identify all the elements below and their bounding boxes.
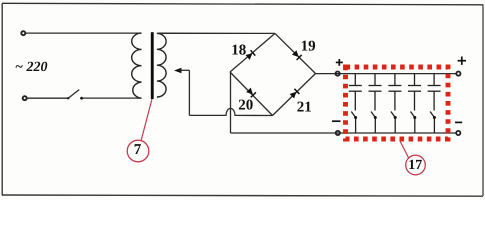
- callout circle 7: [127, 140, 149, 162]
- diode 21: [289, 89, 299, 99]
- svg-text:19: 19: [301, 39, 316, 55]
- wire: plus rail from bridge right vertex: [316, 73, 457, 75]
- wire: tap to bridge bottom vertex, with hop over minus wire: [189, 108, 272, 115]
- wire: tap down: [188, 70, 190, 115]
- label minus right: [455, 121, 462, 123]
- terminal: AC input bottom: [23, 96, 27, 100]
- svg-text:18: 18: [231, 43, 246, 59]
- leader line for callout 7: [141, 99, 152, 141]
- terminal: plus right: [456, 72, 460, 76]
- bridge edge upper-left: [230, 33, 275, 72]
- bridge edge lower-right: [273, 74, 316, 116]
- switch: [67, 97, 69, 99]
- svg-text:20: 20: [238, 98, 253, 114]
- tap arrow on secondary: [174, 68, 182, 74]
- label plus right: [458, 57, 466, 65]
- bridge edge lower-left: [230, 72, 273, 116]
- callout circle 17: [406, 155, 426, 175]
- capacitor C5 with switch: [428, 74, 441, 133]
- wire: secondary top to bridge top vertex: [157, 32, 275, 34]
- wire: minus rail to right: [231, 132, 457, 134]
- svg-text:7: 7: [134, 142, 142, 158]
- capacitor C4 with switch: [408, 74, 421, 133]
- svg-text:~ 220: ~ 220: [15, 60, 47, 75]
- transformer secondary winding: [157, 33, 166, 97]
- label plus left: [336, 59, 343, 66]
- diode 19: [292, 50, 302, 60]
- leader line for callout 17: [400, 141, 409, 158]
- wire: bottom AC to switch: [27, 97, 68, 99]
- capacitor C3 with switch: [388, 74, 401, 133]
- wire: switch to transformer primary: [82, 97, 142, 99]
- terminal: minus right: [456, 131, 460, 135]
- label minus left: [332, 120, 341, 122]
- terminal: minus left: [336, 131, 340, 135]
- capacitor C2 with switch: [369, 74, 382, 133]
- terminal: AC input top: [21, 31, 25, 35]
- bridge edge upper-right: [275, 33, 316, 73]
- transformer primary winding: [132, 33, 142, 98]
- terminal: plus left: [336, 72, 340, 76]
- diode 18: [245, 50, 255, 60]
- svg-text:21: 21: [297, 100, 312, 116]
- dashed box around capacitor bank 17: [346, 67, 449, 139]
- wire: top AC to transformer primary: [26, 32, 142, 34]
- capacitor C1 with switch: [349, 74, 362, 133]
- diode 20: [246, 87, 256, 97]
- wire: minus from bridge left vertex down: [230, 72, 232, 133]
- svg-text:17: 17: [408, 158, 422, 173]
- transformer core: [151, 32, 154, 99]
- border frame: [1, 3, 3, 195]
